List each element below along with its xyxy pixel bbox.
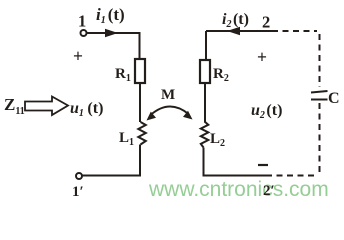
svg-text:i2(t): i2(t) xyxy=(222,11,249,30)
svg-text:C: C xyxy=(328,90,340,107)
svg-text:2: 2 xyxy=(262,13,270,32)
svg-text:u2(t): u2(t) xyxy=(251,102,282,121)
svg-text:www.cntronics.com: www.cntronics.com xyxy=(148,178,329,201)
svg-text:i1(t): i1(t) xyxy=(96,5,125,26)
svg-text:R2: R2 xyxy=(213,66,229,84)
svg-text:M: M xyxy=(161,87,175,103)
svg-text:Z11: Z11 xyxy=(4,95,25,117)
svg-text:1′: 1′ xyxy=(72,184,84,200)
svg-text:L1: L1 xyxy=(119,130,134,148)
svg-text:1: 1 xyxy=(78,12,86,31)
svg-text:+: + xyxy=(73,46,83,66)
svg-text:u1(t): u1(t) xyxy=(70,100,103,119)
svg-text:+: + xyxy=(257,47,267,67)
svg-text:L2: L2 xyxy=(210,131,225,149)
svg-text:2′: 2′ xyxy=(263,183,275,199)
svg-text:R1: R1 xyxy=(115,66,131,84)
